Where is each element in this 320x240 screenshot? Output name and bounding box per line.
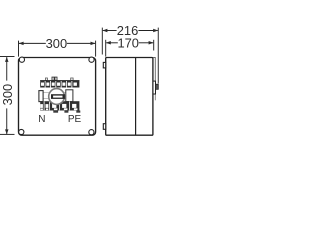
arrowhead vertical 300 bottom: [5, 129, 9, 134]
svg-text:PE: PE: [68, 114, 82, 125]
dimension line 216 right segment: [138, 30, 157, 32]
arrowhead 170 left: [106, 41, 111, 45]
arrowhead 300 left: [19, 42, 24, 46]
top terminal row cells: [40, 80, 79, 87]
extension line right of 300: [95, 41, 97, 57]
wall clip lower: [103, 124, 105, 130]
corner screw top-left: [19, 57, 24, 62]
svg-text:170: 170: [117, 36, 139, 51]
rotary gland circle: [49, 89, 65, 105]
side view body outline: [106, 58, 153, 136]
arrowhead 170 right: [149, 41, 154, 45]
extension line left of 216: [101, 28, 103, 55]
arrowhead 216 left: [103, 29, 108, 33]
corner screw bottom-right: [89, 130, 94, 135]
svg-text:300: 300: [0, 84, 15, 106]
extension line left of 170: [105, 40, 107, 57]
latch body: [153, 81, 156, 94]
dimension 170 (side view body depth): [106, 40, 154, 57]
dimension line vertical lower segment: [6, 108, 8, 134]
dimension line 216 left segment: [103, 30, 117, 32]
extension line bottom (to image edge): [0, 133, 15, 135]
left small module: [39, 91, 43, 102]
bottom terminal row (dark band): [40, 101, 79, 110]
dimension line vertical upper segment: [6, 57, 8, 81]
extension line top (to image edge): [0, 56, 15, 58]
dimension 300 horizontal (top of front view): [19, 41, 96, 57]
switch handle slot: [53, 96, 62, 98]
top rail line: [40, 80, 79, 82]
corner screw bottom-left: [19, 129, 24, 134]
dimension line 300 left segment: [19, 42, 46, 44]
extension line right of 170: [153, 40, 155, 51]
switch handle: [51, 94, 65, 99]
extension line right of 216: [157, 28, 159, 84]
right module: [66, 90, 73, 102]
arrowhead 300 right: [91, 42, 96, 46]
svg-text:N: N: [38, 114, 45, 125]
terminal block assembly in front view: [39, 77, 80, 113]
arrowhead 216 right: [153, 29, 158, 33]
side view cover split line: [135, 58, 137, 135]
latch knob: [156, 84, 159, 89]
front view enclosure outline: [19, 58, 96, 136]
dimension 300 vertical (left of front view): [0, 57, 15, 135]
wall clip upper: [103, 62, 105, 68]
busbar stubs in middle band: [43, 92, 50, 94]
dimension 216 (side view overall): [102, 28, 158, 84]
top row white terminal windows: [41, 83, 77, 86]
top mounting bumps: [46, 78, 48, 80]
bottom row cell separators: [44, 101, 70, 110]
dimension line 170 right segment: [139, 42, 153, 44]
cover edge line top right: [153, 58, 155, 82]
corner screw top-right: [89, 57, 94, 62]
arrowhead vertical 300 top: [5, 57, 9, 62]
bottom row white terminal windows: [40, 104, 77, 110]
dimension line 170 left segment: [106, 42, 118, 44]
dimension line 300 right segment: [67, 42, 95, 44]
mounting feet below bottom row: [53, 111, 58, 113]
extension line left of 300: [18, 41, 20, 57]
svg-text:300: 300: [46, 36, 68, 51]
